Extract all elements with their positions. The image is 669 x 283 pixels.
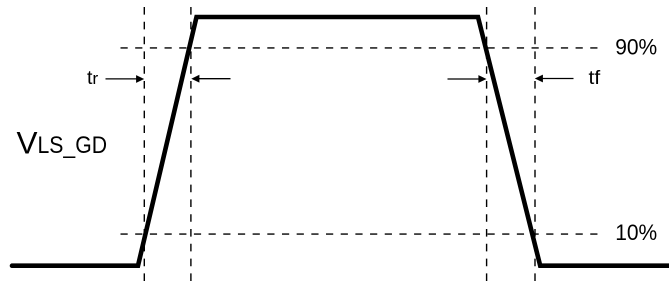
node: vertical dashed cursor at 90% crossing of falling edge bbox=[486, 7, 488, 281]
svg-text:90%: 90% bbox=[615, 35, 657, 60]
wire: tf right arrowhead bbox=[535, 75, 543, 83]
svg-text:tf: tf bbox=[589, 67, 601, 89]
wire: tf right arrow shaft bbox=[543, 78, 574, 80]
wire: tr left arrow shaft bbox=[106, 78, 138, 80]
wire: tf left arrow shaft bbox=[448, 78, 480, 80]
svg-text:10%: 10% bbox=[615, 220, 657, 245]
node: vertical dashed cursor at 90% crossing of rising edge bbox=[190, 7, 192, 281]
wire: tf left arrowhead bbox=[478, 75, 486, 83]
svg-text:V: V bbox=[17, 125, 38, 161]
wire: tr right arrow shaft bbox=[199, 78, 231, 80]
wire: tr right arrowhead bbox=[191, 75, 199, 83]
node: 90% level dashed line bbox=[121, 47, 599, 49]
svg-text:tr: tr bbox=[87, 68, 99, 89]
node: vertical dashed cursor at 10% crossing of rising edge bbox=[143, 7, 145, 281]
node: vertical dashed cursor at 10% crossing of falling edge bbox=[534, 7, 536, 281]
svg-text:LS_GD: LS_GD bbox=[38, 132, 108, 159]
node: 10% level dashed line bbox=[121, 233, 599, 235]
wire: tr left arrowhead bbox=[136, 75, 144, 83]
